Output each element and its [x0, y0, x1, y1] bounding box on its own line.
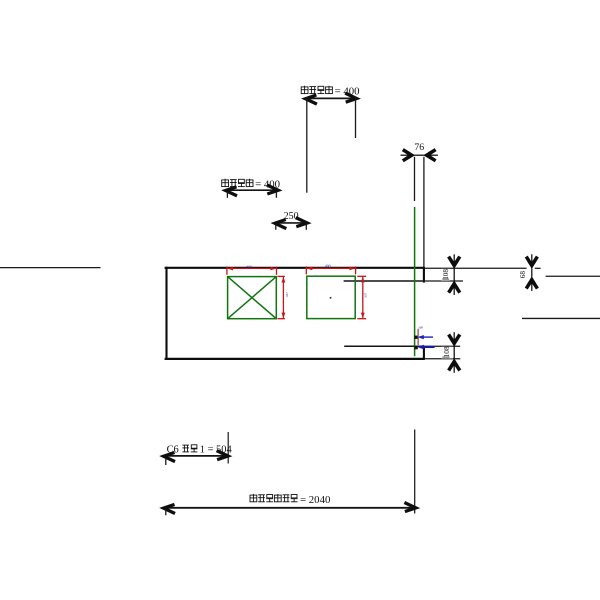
108 lower dim line — [453, 346, 455, 359]
svg-text:68: 68 — [519, 271, 527, 279]
svg-text:= 2040: = 2040 — [300, 494, 330, 506]
504 dim right extension line — [227, 432, 229, 464]
mid 400 left tick — [226, 192, 228, 198]
svg-text:= 400: = 400 — [335, 85, 360, 97]
leader line lower — [344, 345, 424, 347]
right wall line lower — [522, 317, 600, 319]
text 108 upper (rotated) — [441, 269, 450, 281]
red dim right square right side — [357, 276, 366, 318]
grip point lower — [414, 346, 418, 349]
dimension 68 arrows — [526, 254, 537, 269]
equipment rectangle bottom edge — [165, 358, 425, 360]
equipment rectangle left edge — [165, 267, 167, 360]
green duct centre line — [414, 207, 416, 356]
svg-text:337: 337 — [364, 293, 368, 299]
wall line left — [0, 267, 101, 269]
250 right tick — [305, 225, 307, 230]
svg-text:337: 337 — [285, 292, 289, 298]
dimension 108 (upper) arrows — [449, 254, 460, 269]
dimension 管道寬度=400 (top) line — [306, 97, 356, 99]
svg-text:C6: C6 — [167, 445, 179, 456]
2040 dim right extension line — [414, 430, 416, 514]
text 管道寬度 = 400 (top) — [301, 85, 359, 97]
svg-text:250: 250 — [284, 211, 299, 222]
76 dim right extension line — [423, 157, 425, 267]
svg-text:= 400: = 400 — [255, 178, 280, 190]
dimension 76 line — [415, 154, 424, 156]
svg-text:108: 108 — [418, 325, 423, 329]
svg-text:1 = 504: 1 = 504 — [200, 445, 233, 456]
text 108 lower (rotated) — [441, 347, 453, 359]
duct opening square left (with cross) — [228, 277, 277, 319]
top edge extension line to 68 dim — [424, 267, 527, 269]
blue leader arrow lower — [417, 345, 434, 350]
right square centre point — [330, 297, 332, 299]
bottom edge extension line to lower 108 dim — [424, 358, 460, 360]
2040 left tick — [165, 510, 167, 516]
equipment rectangle right edge lower segment — [423, 346, 425, 360]
250 left tick — [275, 225, 277, 230]
svg-text:108: 108 — [442, 269, 450, 280]
top 400 left extension line — [306, 97, 308, 193]
grip point upper — [414, 336, 417, 339]
text 68 (rotated) — [516, 269, 525, 279]
text 管道寬度 = 400 (left) — [222, 178, 280, 190]
dimension C6 offset 504 line — [164, 455, 228, 457]
108 upper dim line — [453, 268, 455, 281]
top 400 right extension line — [355, 97, 357, 138]
dimension 管道寬度=400 (left) line — [226, 189, 278, 191]
504 left tick — [165, 459, 167, 465]
68 dim extension stub right of arrow — [535, 267, 541, 269]
duct opening square right — [307, 276, 355, 318]
text C6 偏移1 = 504 — [167, 445, 233, 456]
text 空調設備長度 = 2040 — [250, 494, 330, 506]
red dim left square right side — [277, 276, 285, 318]
red dim right square top — [306, 266, 355, 274]
blue leader arrow upper — [418, 335, 433, 339]
equipment rectangle top edge — [165, 267, 424, 269]
dimension 空調設備長度=2040 line — [164, 507, 416, 509]
dimension 250 line — [275, 222, 307, 224]
leader line upper (from duct opening) — [344, 280, 425, 282]
equipment rectangle right edge upper segment — [423, 267, 425, 283]
red dim left square top — [227, 267, 277, 275]
mid 400 right tick — [275, 192, 277, 198]
brown offset line — [417, 329, 419, 346]
68 dim line — [531, 268, 533, 277]
dimension 108 (lower) arrows — [449, 332, 460, 347]
svg-text:76: 76 — [414, 142, 424, 153]
76 dim left extension line — [414, 157, 416, 201]
svg-text:400: 400 — [325, 264, 331, 268]
right wall line upper — [546, 275, 600, 277]
svg-text:108: 108 — [442, 346, 451, 357]
svg-text:400: 400 — [246, 264, 252, 268]
